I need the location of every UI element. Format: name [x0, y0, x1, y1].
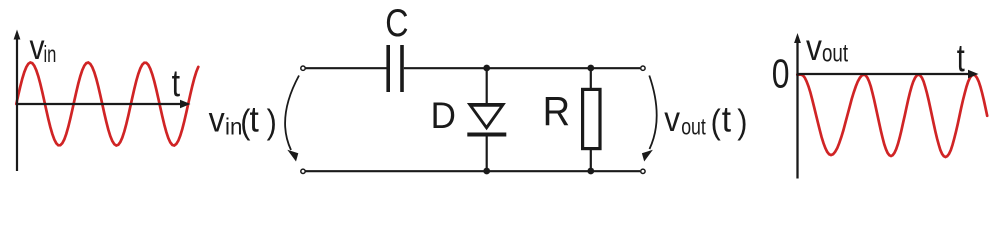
svg-text:v: v — [806, 28, 823, 69]
wire top-middle segment — [404, 67, 640, 69]
capacitor C plates — [388, 45, 402, 92]
svg-text:R: R — [543, 89, 570, 135]
svg-text:t: t — [250, 100, 260, 139]
left graph label v_in — [29, 27, 56, 68]
svg-text:t: t — [957, 37, 965, 80]
output terminal top (circle) — [641, 66, 645, 70]
output label v_out(t) — [664, 100, 747, 140]
svg-text:t: t — [722, 100, 732, 139]
diode D branch wire bottom — [486, 136, 488, 171]
node A bottom junction dot — [483, 168, 490, 175]
diode D triangle — [467, 103, 506, 130]
wire top-left segment — [306, 67, 387, 69]
output clamped wave v_out — [797, 75, 987, 157]
resistor R branch wire bottom — [590, 149, 592, 171]
resistor R body — [583, 89, 600, 148]
svg-text:out: out — [822, 39, 848, 67]
node B top junction dot — [587, 65, 594, 72]
svg-text:(: ( — [711, 103, 721, 141]
svg-text:0: 0 — [772, 51, 790, 97]
left graph vertical axis — [14, 30, 21, 172]
resistor R branch wire top — [590, 68, 592, 90]
svg-text:t: t — [172, 63, 181, 105]
wire bottom segment — [306, 170, 641, 172]
input side curved arrow — [285, 76, 299, 162]
input label v_in(t) — [209, 100, 277, 140]
svg-text:v: v — [664, 101, 680, 140]
node A top junction dot — [483, 65, 490, 72]
svg-text:): ) — [737, 103, 747, 141]
right graph label v_out — [806, 28, 848, 69]
svg-text:C: C — [385, 1, 408, 45]
svg-text:out: out — [681, 114, 706, 140]
svg-text:): ) — [267, 103, 277, 141]
input terminal bottom (circle) — [301, 169, 305, 173]
input sine wave v_in — [16, 63, 198, 146]
output terminal bottom (circle) — [641, 169, 645, 173]
svg-text:D: D — [431, 94, 456, 136]
diode D branch wire top — [486, 68, 488, 105]
svg-text:in: in — [44, 42, 57, 67]
diode D cathode bar — [467, 133, 506, 137]
right graph horizontal axis (t) — [798, 70, 979, 79]
left graph horizontal axis (t) — [16, 100, 191, 109]
output side curved arrow — [642, 76, 657, 162]
input terminal top (circle) — [301, 66, 305, 70]
right graph vertical axis — [794, 33, 801, 179]
node B bottom junction dot — [587, 168, 594, 175]
svg-text:v: v — [209, 101, 225, 140]
